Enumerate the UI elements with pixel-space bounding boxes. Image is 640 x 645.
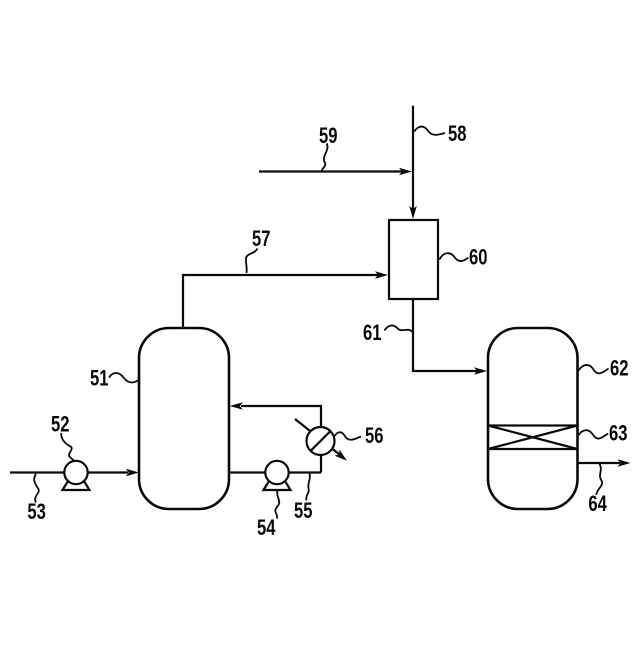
wire line 59 horizontal into line 58 (259, 170, 402, 172)
svg-text:51: 51 (90, 365, 109, 390)
packing bed 63 cross diagonals (488, 426, 578, 450)
pump 54 base (264, 477, 291, 490)
leader squiggle 52 (61, 433, 73, 460)
pump 52 base (63, 477, 90, 490)
svg-text:64: 64 (588, 491, 607, 516)
svg-text:62: 62 (610, 356, 629, 381)
svg-text:53: 53 (27, 499, 46, 524)
packing bed 63 top line (488, 424, 578, 426)
coolant arrow line through exchanger 56 (295, 419, 340, 455)
arrowhead coolant out (334, 450, 347, 461)
svg-text:54: 54 (257, 515, 276, 540)
wire line 61 from box 60 bottom to vessel 62 (413, 299, 477, 371)
svg-text:56: 56 (365, 423, 384, 448)
heat exchanger 56 circle (307, 427, 335, 455)
leader squiggle 57 (246, 249, 258, 274)
wire line 58 vertical into box 60 (412, 106, 414, 211)
reactor box 60 (389, 220, 438, 299)
svg-text:60: 60 (469, 245, 488, 270)
leader squiggle 63 (578, 430, 609, 438)
heat exchanger 56 internal diagonal (311, 431, 331, 451)
leader squiggle 60 (439, 253, 468, 261)
arrowhead line 57 into box 60 (375, 271, 388, 279)
arrowhead line 59 (399, 168, 412, 176)
wire recycle loop riser (241, 406, 321, 473)
packing bed 63 bottom line (488, 448, 578, 450)
leader squiggle 58 (414, 127, 445, 135)
svg-text:59: 59 (319, 123, 338, 148)
svg-text:52: 52 (51, 412, 70, 437)
leader squiggle 53 (34, 474, 39, 503)
leader squiggle 56 (334, 432, 361, 440)
wire outlet line 64 (578, 462, 621, 464)
leader squiggle 64 (596, 464, 602, 495)
leader squiggle 62 (578, 365, 609, 373)
arrowhead recycle into vessel 51 right side (230, 402, 243, 410)
arrowhead outlet 64 (618, 459, 631, 467)
svg-text:57: 57 (252, 226, 271, 251)
pump 52 circle (64, 461, 87, 484)
svg-text:55: 55 (294, 498, 313, 523)
svg-text:63: 63 (609, 421, 628, 446)
leader squiggle 54 (275, 490, 279, 518)
leader squiggle 61 (384, 325, 412, 331)
svg-text:58: 58 (448, 121, 467, 146)
wire bottoms outlet of vessel 51 to exchanger loop (229, 471, 321, 473)
leader squiggle 55 (306, 473, 310, 500)
arrowhead line 61 into vessel 62 (474, 367, 487, 375)
arrowhead into box 60 top (409, 206, 417, 219)
wire feed line 53 (10, 471, 128, 473)
wire line 57 from vessel 51 top to box 60 (183, 275, 378, 328)
vessel 51 (139, 328, 229, 509)
pump 54 circle (265, 461, 288, 484)
arrowhead feed into vessel 51 (126, 469, 139, 477)
leader squiggle 59 (322, 144, 328, 172)
leader squiggle 51 (109, 373, 139, 382)
svg-text:61: 61 (363, 320, 382, 345)
vessel 62 (488, 328, 578, 509)
